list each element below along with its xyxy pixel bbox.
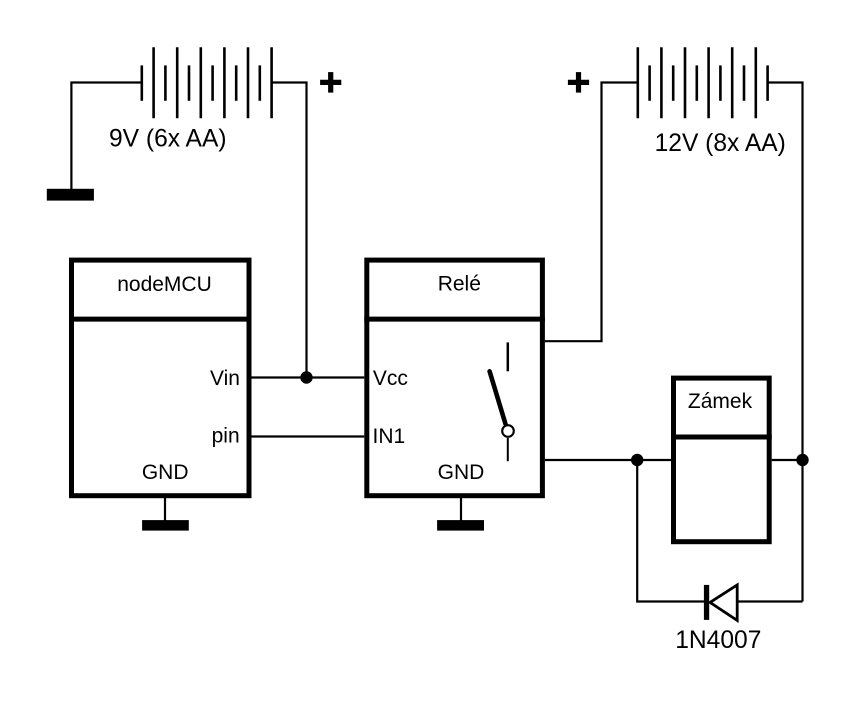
svg-text:12V (8x AA): 12V (8x AA) <box>655 130 786 157</box>
svg-text:Zámek: Zámek <box>688 390 753 413</box>
svg-text:Vcc: Vcc <box>373 367 408 390</box>
svg-text:9V (6x AA): 9V (6x AA) <box>109 126 227 153</box>
svg-text:pin: pin <box>212 425 240 448</box>
svg-text:GND: GND <box>438 461 485 484</box>
svg-text:nodeMCU: nodeMCU <box>117 273 212 296</box>
svg-text:Relé: Relé <box>438 272 481 295</box>
svg-text:Vin: Vin <box>210 367 240 390</box>
svg-text:GND: GND <box>142 461 189 484</box>
svg-text:IN1: IN1 <box>373 425 406 448</box>
svg-text:1N4007: 1N4007 <box>675 627 761 654</box>
